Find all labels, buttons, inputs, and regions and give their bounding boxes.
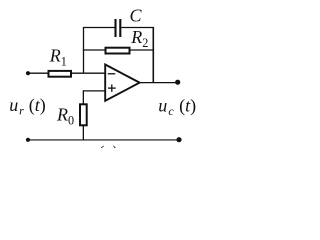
svg-text:C: C — [130, 6, 143, 26]
resistor R2 — [106, 48, 130, 54]
node bottom right terminal dot — [176, 137, 181, 142]
wire R1 to inverting input — [72, 72, 105, 74]
wire non-inverting input — [83, 90, 105, 92]
node input terminal dot — [26, 71, 30, 75]
op-amp U1 — [105, 65, 139, 101]
node output terminal dot — [175, 80, 180, 85]
wire C branch left — [83, 27, 115, 29]
resistor R0 — [80, 104, 87, 125]
op-amp plus sign — [108, 87, 116, 89]
wire input terminal to R1 — [28, 72, 48, 74]
op-amp minus sign — [108, 73, 116, 75]
wire output — [140, 82, 178, 84]
wire R2 branch left — [83, 49, 105, 51]
wire feedback right vertical — [152, 27, 154, 83]
capacitor C — [114, 19, 116, 37]
wire R2 branch right — [131, 49, 154, 51]
wire C branch right — [121, 27, 153, 29]
node bottom left terminal dot — [26, 138, 30, 142]
wire bottom rail — [28, 139, 179, 141]
wire R0 to bottom rail — [82, 126, 84, 140]
resistor R1 — [49, 71, 72, 77]
wire plus input down to R0 — [82, 90, 84, 103]
svg-text:(a): (a) — [98, 143, 117, 148]
wire feedback left vertical — [83, 28, 85, 74]
